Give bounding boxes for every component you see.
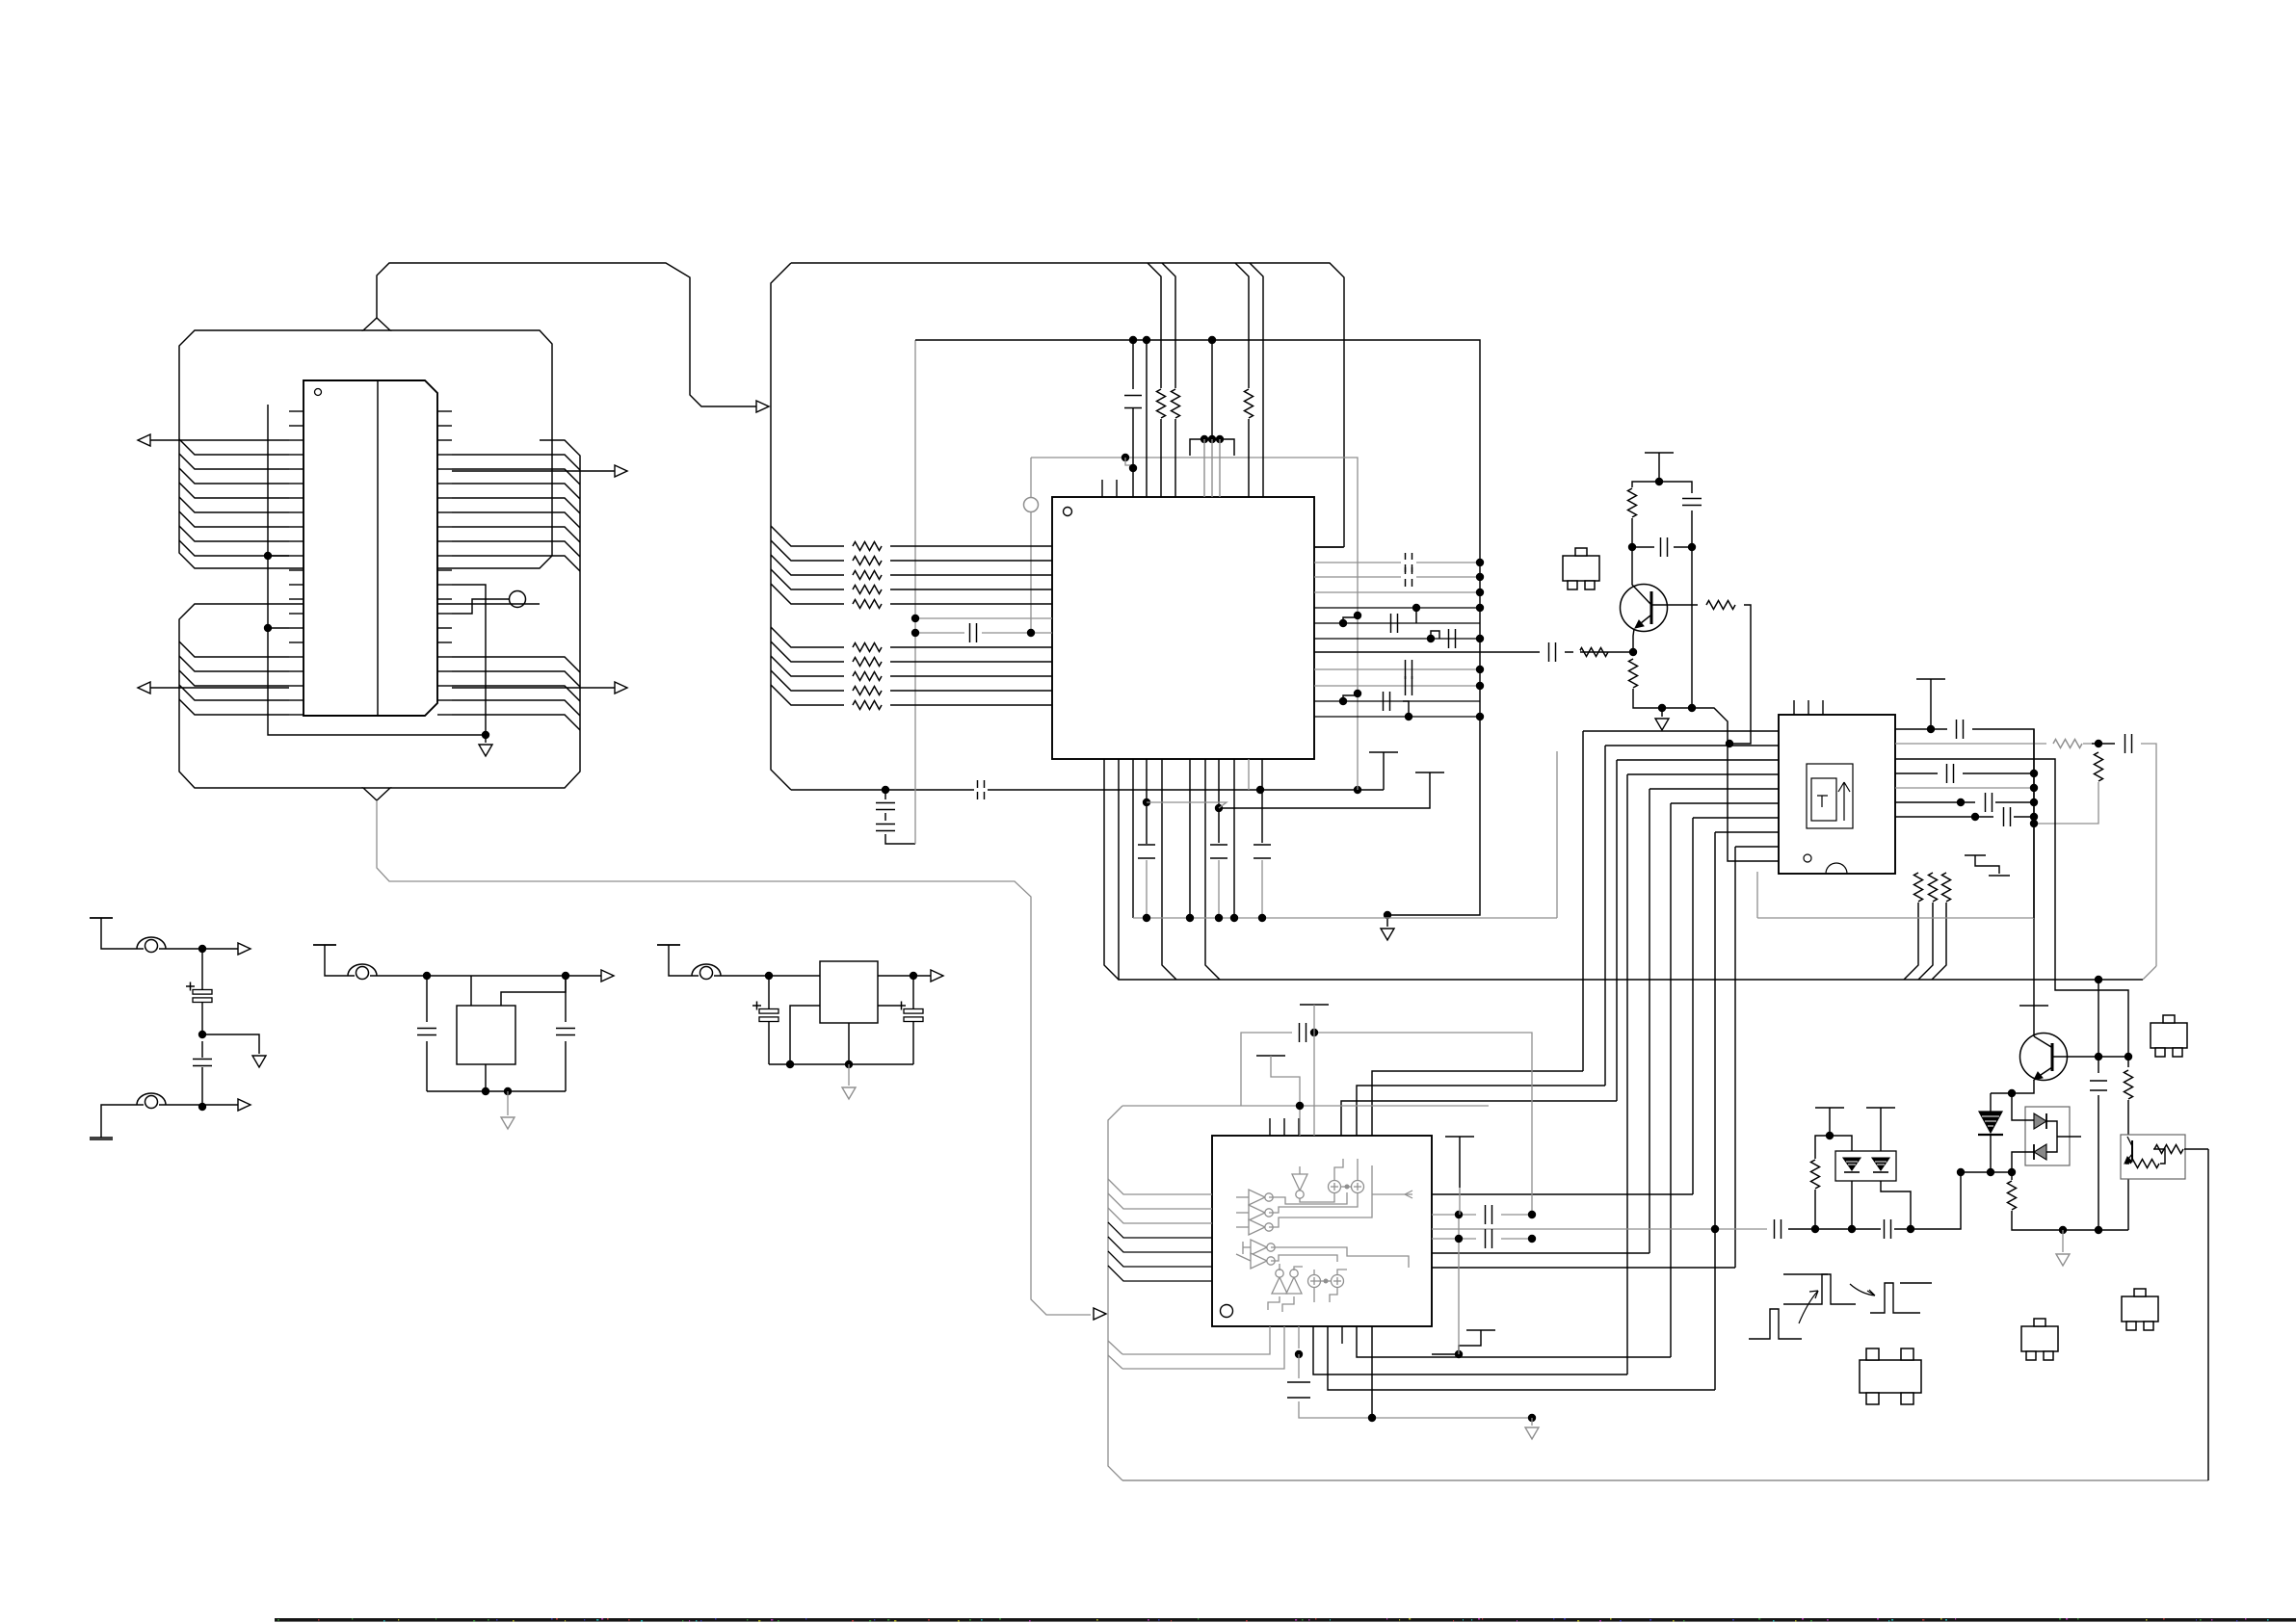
wire bus member (upper left) [179,483,289,498]
wire wire (Q1 emitter) [1636,615,1650,627]
wire net (bus member to U4) [1108,1208,1212,1223]
output arrow (C) [931,970,943,982]
transistor Q1 base bar [1650,591,1653,624]
wire bus member (lower right) [452,715,580,730]
wire wire (VR1 in) [470,976,472,1006]
wire wire [2098,1095,2099,1230]
junction [1987,1168,1994,1176]
wire wire [890,690,1052,692]
wire wire [159,948,238,950]
wire wire (U4 int) [1271,1247,1409,1268]
wire wire [1261,860,1263,918]
junction [2095,1226,2102,1234]
wire net (sense gnd) [2012,1211,2128,1230]
wire net (pull-up) [1162,263,1175,388]
junction [1354,612,1361,619]
wire wire (U4 int) [1372,1193,1412,1195]
power tap (LED) [1815,1107,1844,1109]
wire wire (test point jog) [452,599,510,614]
wire wire [1674,546,1692,548]
transistor package pkgC (SOT-23 outline) [2151,1023,2187,1048]
resistor R (U3 bottom) [1942,873,1951,902]
wire bus member (upper left) [179,511,289,527]
transistor Q1 emitter arrow [1635,620,1644,628]
wire net (U3 bottom term) [1932,903,1946,980]
junction [765,972,773,980]
transistor package pkgB (SOT-23 outline) [2122,1296,2158,1322]
capacitor C (U4 filter) [1300,1023,1306,1042]
module U3 top pin [1822,700,1824,715]
wire wire [2033,824,2035,918]
junction [1476,682,1484,690]
junction [1230,914,1238,922]
wire net (control line C) [1132,759,1134,918]
wire net (U1 feedback rail) [268,405,486,735]
wire wire [507,1091,509,1115]
capacitor C (stacked lower) [876,825,895,831]
wire wire [1298,1354,1300,1378]
wire bus member (upper left) [179,439,289,455]
junction [1339,697,1347,705]
junction [562,972,569,980]
junction [1455,1211,1463,1218]
power tap (U4 caps) [1445,1136,1474,1138]
wire net (video bus B) [1605,745,1779,746]
wire wire (jog) [1343,615,1358,623]
wire wire [1108,1341,1122,1354]
IC U1 pin-1 index circle [315,389,322,396]
bus arrow (right, upper) [615,465,627,477]
wire wire [2098,1057,2099,1073]
junction [1688,543,1696,551]
junction [423,972,431,980]
wire net (data bus bit) [771,555,844,575]
wire net (U4 out R1) [1432,1214,1476,1216]
wire wire [1189,759,1191,918]
wire bus member (upper right) [452,455,580,470]
wire net (addr bus bit) [771,641,844,662]
wire net (video bus C vertical) [1616,760,1618,1101]
output arrow (B) [601,970,614,982]
IC U4 top pin [1298,1118,1300,1136]
wire wire [890,675,1052,677]
wire wire [1932,873,1934,875]
IC U1 left pin [289,699,303,701]
wire wire [268,627,289,629]
wire bus member (upper left) [179,468,289,484]
capacitor C (U3 out 2) [2125,734,2132,753]
junction [1658,704,1666,712]
wire net row (left arrow lower) [150,687,289,689]
resistor R (sensor fb) [2130,1160,2159,1168]
wire wire [884,813,886,821]
wire wire [1248,759,1250,790]
wire net (addr bus bit) [771,670,844,691]
wire wire [1661,708,1663,717]
wire wire [884,790,886,799]
wire bus member (upper right) [452,484,580,499]
wire wire [1632,482,1659,487]
wire wire [201,1003,203,1034]
wire wire [1881,1181,1911,1229]
ground (Q1) [1655,719,1669,730]
wire net (video bus D) [1627,773,1779,775]
wire wire [426,976,428,1022]
junction [198,1103,206,1111]
wire net (U2 output row) [1314,716,1480,718]
resistor R (U3 term) [2095,752,2103,781]
wire bus member (upper right) [452,556,580,571]
wire bus member (lower left) [179,656,289,671]
wire net (supply in C) [669,945,699,976]
wire net (video bus G to U4) [1432,1193,1693,1195]
summing node S1 [1329,1181,1341,1193]
resistor R1 [1157,389,1166,418]
resistor R (Q2 base) [2124,1070,2133,1099]
wire wire [1459,1188,1461,1215]
junction [1143,798,1150,806]
junction [198,945,206,953]
wire net (U2 output row) [1314,576,1480,578]
wire net (video bus G vertical) [1692,818,1694,1194]
junction [1256,786,1264,794]
junction [1476,713,1484,720]
wire wire [912,1022,914,1064]
wire net (video bus E) [1649,788,1779,790]
wire mask [1573,650,1580,654]
wire net (analog ref rail) [914,340,916,844]
capacitor C (out filter) [1384,692,1390,711]
IC U1 left pin [289,540,303,542]
wire bus member (upper right) [452,498,580,513]
wire wire [1313,1005,1315,1136]
wire net (control bus) [1119,759,2143,980]
junction [1455,1350,1463,1358]
capacitor C (bottom rail) [978,780,985,799]
junction [2059,1226,2067,1234]
wire bus member (upper right) [452,469,580,484]
bus outline (lower loop left part) [179,604,540,788]
wire wire (U4 int) [1242,1242,1244,1254]
wire wire [90,1137,113,1139]
junction [1476,573,1484,581]
wire net (data bus bit) [771,526,844,546]
IC U2 (main LSI) [1052,497,1314,759]
junction [1208,336,1216,344]
IC U4 index circle [1221,1305,1233,1318]
wire wire [1814,1190,1816,1229]
resistor R7 [853,586,882,594]
wire net (decouple) [1218,759,1220,843]
wire bus member (lower left) [179,641,289,657]
IC U1 left pin [289,497,303,499]
wire net (video bus B vertical) [1604,746,1606,1086]
wire net (video bus D to U4) [1313,1326,1627,1374]
junction [2030,770,2038,777]
capacitor C (Q1 divider AC) [1661,537,1668,557]
wire wire [1313,1033,1532,1211]
wire wire [890,574,1052,576]
wire wire [1218,860,1220,918]
footer microtext strip [275,1618,2296,1622]
junction [1368,1414,1376,1422]
wire net (bus member to U4) [1108,1222,1212,1238]
wire wire [890,646,1052,648]
wire wire [1262,388,1264,497]
wire net (video bus C) [1617,759,1779,761]
ground (AVDD decouple) [1381,929,1394,940]
capacitor lead mask [1401,574,1416,579]
wire wire [2127,1057,2129,1067]
wire net (pull-up) [1250,263,1263,388]
IC U1 left pin [289,555,303,557]
wire wire [1659,482,1692,493]
IC U1 left pin [289,425,303,427]
wire net (U4 out L2) [1122,1326,1284,1369]
resistor R11 [853,672,882,681]
wire net (U4 out R2) [1432,1238,1476,1240]
wire wire [1658,453,1660,482]
capacitor C (U4 out R1) [1486,1205,1492,1224]
wire net (data bus bit) [771,584,844,604]
wire net (bus member to U4) [1108,1266,1212,1281]
junction [911,629,919,637]
wire bus link (top-left block to main block) [377,263,756,406]
bus arrow (left, upper) [138,434,150,446]
module U3 icon tick [1817,796,1828,807]
junction [1296,1102,1304,1110]
wire wire [2012,1152,2034,1172]
resistor R (LED) [1811,1160,1820,1189]
junction [1826,1132,1834,1139]
wire wire [565,976,567,1022]
wire bus member (lower left) [179,670,289,686]
summing node S2 [1352,1181,1364,1193]
resistor R6 [853,571,882,580]
wire wire [982,632,1052,634]
wire wire [1030,458,1032,497]
junction [2095,1053,2102,1060]
junction [1201,435,1208,443]
wire wire [1633,629,1634,652]
power tap (U4 right) [1466,1329,1495,1331]
capacitor C (A filter 2) [193,1060,212,1066]
junction [1848,1225,1856,1233]
capacitor C (track couple 2) [1885,1219,1891,1239]
junction [1927,725,1935,733]
wire wire [1371,1326,1373,1418]
IC U1 left pin [289,598,303,600]
junction [910,972,917,980]
IC U1 left pin [289,670,303,672]
IC U1 right pin [437,439,452,441]
bus outline (upper loop, top-left block) [179,330,552,568]
wire wire [1314,546,1343,548]
diode box D4/D5 [2025,1107,2070,1165]
wire wire [768,976,770,1008]
wire wire [1162,759,1176,980]
wire bus member (lower right) [452,657,580,672]
junction [1655,478,1663,485]
capacitor C (out filter) [1449,629,1456,648]
wire wire (U4 int) [1313,1270,1315,1274]
wire wire [2083,743,2092,745]
IC U1 left pin [289,439,303,441]
photo sensor box U5 [2121,1135,2185,1179]
IC U1 right pin [437,584,452,586]
power tap (small) [1965,854,1986,856]
junction [1027,629,1035,637]
wire wire [370,975,601,977]
wire wire [237,948,239,950]
junction [1629,648,1637,656]
wire net (video bus F vertical) [1670,803,1672,1357]
wire wire [1815,1136,1830,1159]
junction [1957,1168,1965,1176]
IC U1 left pin [289,454,303,456]
wire wire [1432,1353,1459,1355]
waveform arrow 2 [1850,1284,1875,1296]
wire wire (jog) [1147,802,1227,808]
wire net (supply in A) [101,918,137,949]
wire wire (U4 int) [1300,1192,1334,1202]
wire net (U2 output row) [1314,607,1480,609]
wire wire [2011,1172,2013,1180]
junction [1476,635,1484,642]
junction [1122,454,1129,461]
wire bus member (lower right) [452,686,580,701]
wire wire [2098,750,2099,752]
photodiode D3 [1979,1112,2002,1133]
wire wire [485,735,487,743]
wire wire [2033,1006,2035,1036]
wire net row (right arrow lower) [452,687,615,689]
junction [1427,635,1435,642]
wire net (main block bottom rail) [791,789,1384,791]
capacitor C (Q2) [2090,1081,2107,1090]
wire wire (sensor out) [2184,1148,2208,1150]
wire net (tracking coil drive) [1432,1228,1767,1230]
wire wire [565,1041,567,1091]
IC U1 right pin [437,569,452,571]
IC U1 left pin [289,656,303,658]
wire wire [657,944,680,946]
capacitor C (stacked upper) [876,803,895,810]
resistor R13 [853,701,882,710]
wire wire [1829,1108,1831,1136]
summing node S4 [1332,1275,1344,1288]
wire bus link (top-left block to bottom bus) [377,800,1091,1315]
ground (C) [842,1087,856,1099]
IC U2 top pin (n.c.) [1116,480,1118,497]
wire net (video bus E vertical) [1649,789,1650,1253]
junction [845,1060,853,1068]
resistor R (sense) [2008,1181,2017,1210]
waveform pulse 2 top line [1783,1273,1828,1275]
bus entry arrow (bottom bus left edge) [1094,1308,1106,1320]
wire wire (diode box out) [2057,1136,2081,1138]
bus vertex (bottom of lower loop) [363,788,390,800]
power tap (RF bias) [1415,772,1444,773]
wire wire [768,1022,770,1064]
wire net (bus member to U4) [1108,1251,1212,1267]
logic inverter G4 [1251,1240,1267,1255]
resistor R (Q1 divider hi) [1628,488,1637,517]
wire wire [2153,1149,2165,1164]
resistor R (Q1 emitter) [1629,659,1638,688]
wire wire (U4 int) [1318,1280,1332,1282]
wire net (AVDD rail) [915,340,1480,915]
capacitor C (U3 out 1) [1957,720,1964,739]
ground (U4) [1525,1427,1539,1439]
transistor Q2 emitter arrow [2034,1072,2043,1080]
capacitor C (out filter) [1391,614,1398,633]
wire wire [1146,860,1148,918]
wire wire [1556,751,1558,918]
wire bus member (upper left) [179,454,289,469]
resistor R (sensor load) [2154,1145,2183,1154]
power tap (B in) [313,944,336,946]
wire wire (U4 int) [1236,1254,1251,1261]
wire wire [1531,1418,1533,1426]
junction [2095,740,2102,747]
capacitor C (A filter) (polarized) [193,990,212,995]
power tap (LED2) [1866,1107,1895,1109]
power tap (C in) [657,944,680,946]
wire net (Q1 out) [1729,605,1751,744]
wire net (B gnd) [427,1090,566,1092]
wire net (Vref) [1132,340,1134,389]
wire wire [1030,512,1032,633]
wire bus member (upper left) [179,540,289,556]
bus outline (bottom edge) [1122,1479,2208,1481]
resistor R (U3 bottom) [1914,873,1923,902]
wire wire [1459,1137,1461,1188]
wire wire [1108,1355,1122,1369]
wire net (U3 out 4) [1895,772,1938,774]
junction [1476,666,1484,673]
junction [1711,1225,1719,1233]
IC U1 right pin [437,454,452,456]
wire net (pull-up) [1235,263,1249,388]
power tap (A2 in) [90,1139,113,1140]
junction [198,1031,206,1038]
wire net (decouple) [1146,759,1148,844]
ground (A) [252,1056,266,1067]
module U3 bottom notch [1826,863,1847,874]
IC U1 left pin [289,410,303,412]
wire net (U4 ref) [1298,1326,1300,1348]
resistor R (Q1 base) [1706,601,1735,610]
IC U1 right pin [437,714,452,716]
wire wire [890,603,1052,605]
IC U1 left pin [289,584,303,586]
wire net (video bus H vertical) [1714,832,1716,1390]
wire wire [885,834,915,844]
wire wire (U4 int) [1269,1165,1372,1227]
LED pair box D1/D2 [1835,1151,1896,1181]
ground (sense) [2056,1254,2070,1266]
junction [1412,604,1420,612]
wire wire [890,704,1052,706]
diode D4 [2034,1113,2046,1129]
wire net (video bus H to U4) [1328,1326,1715,1390]
capacitor C (Q1 bypass hi) [1682,499,1702,506]
transistor Q1 [1621,585,1668,632]
wire wire (VR2 gnd) [848,1023,850,1064]
capacitor C (C out) (polarized) [904,1009,923,1014]
wire wire [426,1041,428,1091]
